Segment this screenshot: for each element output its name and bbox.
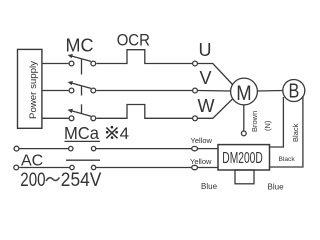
- wire L2 from power supply to MC pole 2: [42, 90, 68, 92]
- svg-text:MCa: MCa: [64, 123, 99, 143]
- svg-text:OCR: OCR: [117, 31, 150, 50]
- connector yellow 2: [192, 165, 198, 169]
- AC line 1 wire to DM200D: [96, 148, 192, 150]
- contactor MC pole 1: [68, 54, 96, 75]
- contactor MC pole 3: [68, 104, 96, 120]
- svg-text:Brown: Brown: [250, 111, 259, 132]
- svg-text:B: B: [289, 81, 300, 103]
- terminal W: [193, 116, 198, 121]
- AC line 2 wire to DM200D: [96, 167, 192, 169]
- svg-text:Power supply: Power supply: [28, 61, 38, 119]
- contactor MC pole 2: [68, 81, 96, 96]
- terminal U: [193, 61, 198, 66]
- motor M: [231, 78, 258, 105]
- brake coil B: [283, 80, 305, 102]
- wire W phase with OCR heater bump: [96, 105, 192, 119]
- svg-text:Blue: Blue: [268, 183, 285, 192]
- svg-text:200: 200: [20, 169, 45, 191]
- svg-text:W: W: [198, 96, 215, 116]
- wire U phase with OCR heater bump: [96, 50, 192, 64]
- label reference mark 4: [106, 128, 117, 139]
- svg-text:MC: MC: [66, 36, 94, 56]
- AC line 2 terminal: [14, 165, 19, 170]
- AC line 1 wire: [20, 148, 69, 150]
- wire L3 from power supply to MC pole 3: [42, 117, 68, 119]
- svg-text:4: 4: [120, 124, 129, 143]
- AC line 2 wire: [19, 167, 69, 169]
- svg-text:V: V: [200, 68, 212, 88]
- DM200D bottom tab: [235, 170, 254, 184]
- wire M to B: [257, 90, 283, 93]
- svg-text:Yellow: Yellow: [191, 136, 213, 145]
- wire black left from B: [270, 97, 284, 147]
- wire black right from B: [270, 96, 303, 167]
- svg-text:M: M: [236, 81, 251, 105]
- svg-text:DM200D: DM200D: [222, 150, 262, 167]
- lead W to motor: [198, 99, 233, 119]
- svg-text:254V: 254V: [61, 169, 102, 191]
- wire brown (N) from motor: [243, 105, 245, 131]
- terminal brown: [241, 131, 246, 136]
- wire V phase: [96, 90, 192, 92]
- wire L1 from power supply to MC pole 1: [42, 63, 68, 65]
- terminal V: [193, 88, 198, 93]
- lead V to motor: [198, 90, 231, 93]
- relay contact MCa line 1: [65, 141, 101, 150]
- lead U to motor: [198, 64, 233, 86]
- controller DM200D box: [218, 145, 270, 170]
- AC line 1 terminal: [14, 146, 19, 151]
- wire into DM200D line 2: [198, 167, 219, 169]
- svg-text:AC: AC: [21, 153, 43, 170]
- relay contact MCa line 2: [66, 160, 100, 170]
- svg-text:Black: Black: [291, 123, 300, 142]
- wire into DM200D line 1: [198, 148, 219, 150]
- svg-text:(N): (N): [263, 120, 272, 131]
- svg-text:Yellow: Yellow: [190, 157, 212, 166]
- svg-text:U: U: [199, 40, 212, 60]
- power supply box: [18, 49, 42, 128]
- svg-text:Blue: Blue: [201, 182, 218, 191]
- svg-text:Black: Black: [279, 156, 296, 163]
- connector yellow 1: [192, 146, 198, 150]
